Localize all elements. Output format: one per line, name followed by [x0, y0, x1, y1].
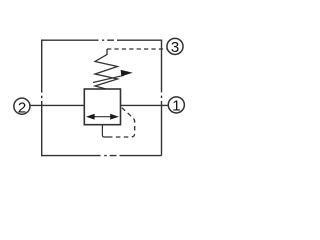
svg-text:1: 1 [172, 97, 180, 114]
svg-text:2: 2 [18, 99, 26, 116]
svg-text:3: 3 [171, 39, 179, 56]
